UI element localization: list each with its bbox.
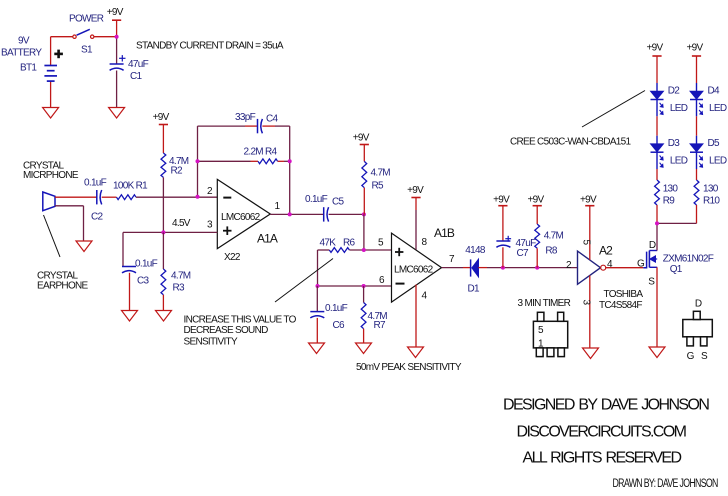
- svg-text:D4: D4: [708, 86, 721, 97]
- svg-text:S1: S1: [81, 45, 93, 56]
- svg-text:+9V: +9V: [153, 112, 170, 123]
- svg-text:DISCOVERCIRCUITS.COM: DISCOVERCIRCUITS.COM: [517, 424, 687, 441]
- svg-text:+9V: +9V: [580, 195, 597, 206]
- svg-text:A1B: A1B: [434, 226, 455, 240]
- svg-text:R10: R10: [703, 195, 720, 206]
- svg-text:DECREASE SOUND: DECREASE SOUND: [184, 325, 269, 336]
- svg-text:LED: LED: [709, 103, 727, 114]
- svg-text:4.5V: 4.5V: [172, 218, 191, 229]
- svg-text:CREE C503C-WAN-CBDA151: CREE C503C-WAN-CBDA151: [510, 137, 632, 148]
- svg-text:7: 7: [449, 254, 455, 265]
- svg-text:3 MIN TIMER: 3 MIN TIMER: [518, 298, 571, 309]
- svg-text:+9V: +9V: [407, 185, 424, 196]
- svg-text:D: D: [695, 298, 702, 309]
- svg-text:+9V: +9V: [647, 43, 664, 54]
- svg-text:R6: R6: [343, 238, 356, 249]
- svg-text:4.7M: 4.7M: [171, 271, 191, 282]
- svg-text:2: 2: [207, 186, 213, 197]
- svg-text:4.7M: 4.7M: [371, 168, 391, 179]
- svg-text:R8: R8: [545, 246, 558, 257]
- svg-text:0.1uF: 0.1uF: [325, 303, 348, 314]
- svg-text:9V: 9V: [18, 36, 30, 47]
- svg-text:3: 3: [207, 220, 213, 231]
- svg-text:R2: R2: [171, 166, 184, 177]
- svg-text:C1: C1: [130, 71, 143, 82]
- svg-text:LED: LED: [709, 156, 727, 167]
- svg-text:47K: 47K: [320, 238, 337, 249]
- svg-text:+9V: +9V: [687, 43, 704, 54]
- svg-text:D1: D1: [468, 284, 481, 295]
- svg-text:0.1uF: 0.1uF: [135, 259, 158, 270]
- svg-text:4: 4: [422, 291, 428, 302]
- svg-text:R9: R9: [663, 195, 676, 206]
- svg-text:INCREASE THIS VALUE TO: INCREASE THIS VALUE TO: [184, 315, 297, 326]
- svg-text:100K R1: 100K R1: [113, 181, 148, 192]
- svg-text:0.1uF: 0.1uF: [305, 194, 328, 205]
- svg-text:+9V: +9V: [353, 132, 370, 143]
- svg-text:POWER: POWER: [69, 14, 104, 25]
- svg-text:BATTERY: BATTERY: [1, 48, 42, 59]
- svg-text:33pF: 33pF: [235, 112, 256, 123]
- svg-text:A2: A2: [599, 243, 613, 257]
- svg-text:LED: LED: [670, 156, 688, 167]
- svg-text:1: 1: [275, 201, 281, 212]
- svg-text:ALL RIGHTS RESERVED: ALL RIGHTS RESERVED: [523, 450, 682, 467]
- svg-text:LMC6062: LMC6062: [394, 265, 434, 276]
- svg-text:D2: D2: [668, 86, 681, 97]
- svg-text:G: G: [687, 351, 695, 362]
- svg-text:2: 2: [566, 260, 572, 271]
- svg-text:TC4S584F: TC4S584F: [599, 300, 642, 311]
- svg-text:130: 130: [703, 184, 719, 195]
- svg-text:R3: R3: [173, 283, 186, 294]
- svg-text:DRAWN BY: DAVE JOHNSON: DRAWN BY: DAVE JOHNSON: [613, 477, 718, 491]
- svg-text:R7: R7: [374, 320, 387, 331]
- svg-text:ZXM61N02F: ZXM61N02F: [663, 253, 714, 264]
- svg-text:C7: C7: [517, 248, 530, 259]
- svg-text:D5: D5: [708, 138, 721, 149]
- svg-text:BT1: BT1: [20, 63, 37, 74]
- svg-text:+9V: +9V: [493, 195, 510, 206]
- svg-text:130: 130: [663, 184, 679, 195]
- svg-text:C4: C4: [266, 114, 279, 125]
- svg-text:C6: C6: [333, 320, 346, 331]
- svg-text:50mV PEAK SENSITIVITY: 50mV PEAK SENSITIVITY: [356, 362, 462, 373]
- svg-text:MICRPHONE: MICRPHONE: [23, 170, 79, 181]
- svg-text:C5: C5: [332, 197, 345, 208]
- svg-text:S: S: [701, 351, 708, 362]
- svg-text:D3: D3: [668, 138, 681, 149]
- svg-text:0.1uF: 0.1uF: [84, 178, 107, 189]
- svg-text:8: 8: [422, 237, 428, 248]
- svg-text:TOSHIBA: TOSHIBA: [604, 289, 644, 300]
- svg-text:DESIGNED BY DAVE JOHNSON: DESIGNED BY DAVE JOHNSON: [503, 396, 709, 413]
- svg-text:X22: X22: [224, 252, 241, 263]
- svg-text:+9V: +9V: [107, 7, 124, 18]
- svg-text:S: S: [648, 277, 655, 288]
- svg-text:47uF: 47uF: [128, 59, 149, 70]
- svg-text:STANDBY CURRENT DRAIN = 35uA: STANDBY CURRENT DRAIN = 35uA: [136, 41, 284, 52]
- svg-text:C2: C2: [91, 212, 104, 223]
- svg-text:4.7M: 4.7M: [544, 231, 564, 242]
- svg-text:5: 5: [378, 238, 384, 249]
- svg-text:6: 6: [379, 275, 385, 286]
- svg-text:SENSITIVITY: SENSITIVITY: [184, 337, 238, 348]
- svg-text:G: G: [637, 259, 645, 270]
- svg-text:A1A: A1A: [257, 231, 278, 245]
- svg-text:D: D: [649, 240, 656, 251]
- svg-text:Q1: Q1: [670, 264, 683, 275]
- svg-text:4148: 4148: [465, 245, 486, 256]
- svg-text:2.2M R4: 2.2M R4: [244, 147, 278, 158]
- svg-text:+9V: +9V: [528, 195, 545, 206]
- svg-text:C3: C3: [137, 276, 150, 287]
- svg-text:LED: LED: [670, 103, 688, 114]
- svg-text:EARPHONE: EARPHONE: [37, 281, 89, 292]
- svg-text:LMC6062: LMC6062: [221, 212, 261, 223]
- svg-text:R5: R5: [372, 181, 385, 192]
